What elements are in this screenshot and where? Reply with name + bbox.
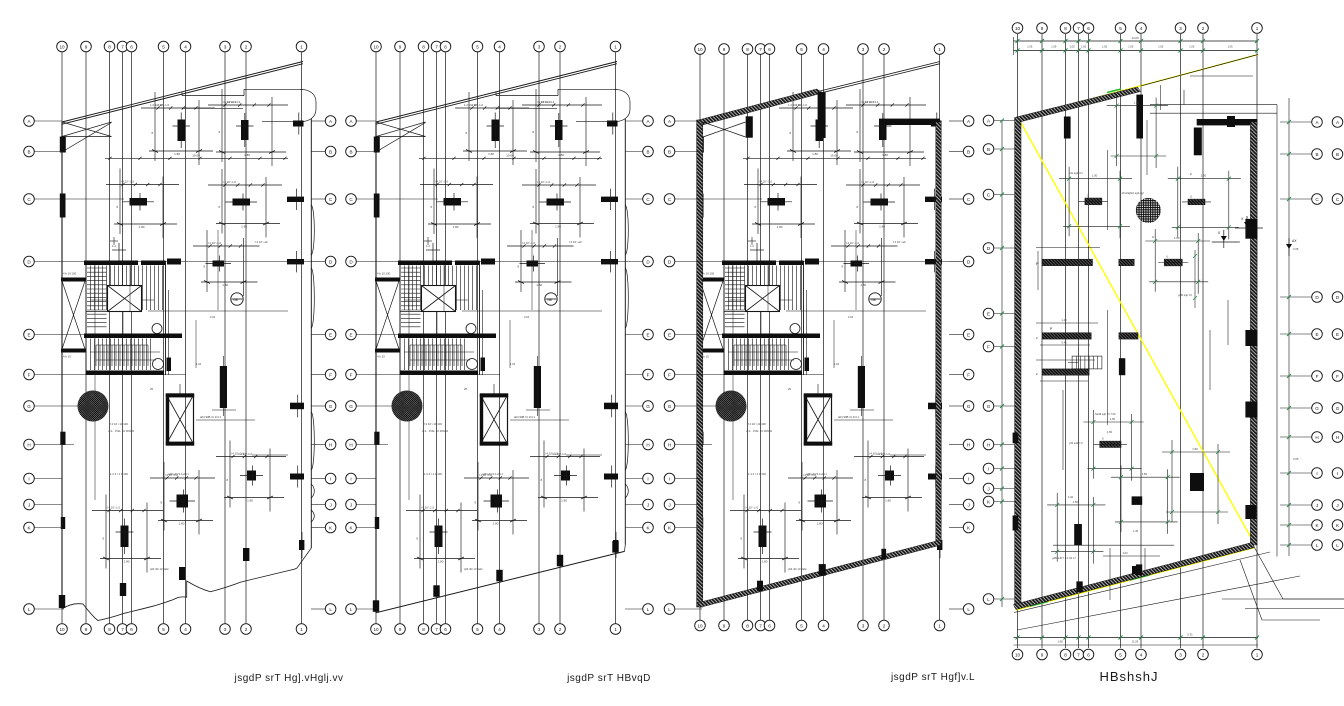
svg-text:I: I (330, 476, 331, 481)
row bubble D left (24, 256, 35, 267)
svg-text:10: 10 (697, 47, 703, 52)
svg-text:2.04: 2.04 (524, 315, 530, 319)
svg-text:l 4 10 \ 1.0: l 4 10 \ 1.0 (231, 452, 245, 456)
svg-text:GB: GB (871, 298, 876, 302)
svg-text:d.4- . P40- 10 00N04: d.4- . P40- 10 00N04 (108, 429, 134, 433)
row stub (34, 198, 124, 200)
row stub (1280, 504, 1312, 506)
svg-text:1.80: 1.80 (488, 152, 494, 156)
yellow roof line 2 (1020, 121, 1255, 545)
svg-text:10 sNgNA sgb sgl: 10 sNgNA sgb sgl (1121, 191, 1144, 195)
svg-text:8: 8 (1064, 26, 1067, 31)
svg-text:8: 8 (422, 627, 425, 632)
svg-text:25: 25 (464, 387, 468, 391)
grid4 pier (818, 92, 826, 138)
brace (62, 122, 112, 137)
grid line 5 (1120, 34, 1122, 648)
svg-text:G: G (349, 404, 353, 409)
grid bubble 7 bottom (755, 620, 766, 631)
panel 1 outline (59, 62, 316, 621)
row bubble H left (24, 439, 35, 450)
grid bubble 4 top (818, 44, 829, 55)
grid bubble 4 top (180, 41, 191, 52)
row stub (1280, 296, 1312, 298)
row bubble F left (24, 369, 35, 380)
svg-text:4: 4 (1140, 652, 1143, 657)
bottom diagonal wall (1014, 543, 1255, 610)
svg-text:l 4 10 \ 1.0: l 4 10 \ 1.0 (208, 241, 222, 245)
row stub (311, 405, 325, 407)
column module 6 (854, 441, 924, 512)
grid bubble 6 bottom (126, 624, 137, 635)
svg-text:1.4b: 1.4b (1205, 557, 1211, 561)
row bubble G right (643, 401, 654, 412)
grid line 1 (301, 52, 303, 624)
row stub (1280, 544, 1312, 546)
row stub (356, 261, 625, 263)
grid bubble 5 top (158, 41, 169, 52)
row bubble D right (643, 256, 654, 267)
row bubble I left (664, 473, 675, 484)
svg-text:l 4 10 \ 1.0: l 4 10 \ 1.0 (421, 506, 435, 510)
row bubble F left (346, 369, 357, 380)
svg-text:G: G (1336, 406, 1340, 411)
row bubble K right (963, 522, 974, 533)
grid bubble 10 top (371, 41, 382, 52)
svg-text:f 4 10 \ a0: f 4 10 \ a0 (255, 240, 268, 244)
row bubble I right (643, 473, 654, 484)
svg-text:GB: GB (233, 298, 238, 302)
svg-text:10: 10 (1015, 26, 1021, 31)
row bubble C left (664, 194, 675, 205)
svg-text:1.50: 1.50 (1092, 174, 1098, 178)
svg-text:E: E (987, 311, 990, 316)
grid line 10 (375, 52, 377, 624)
svg-text:4 b 10 100: 4 b 10 100 (377, 272, 391, 276)
svg-text:l 4 10 \ 1.0: l 4 10 \ 1.0 (435, 180, 449, 184)
row bubble F right 1 (1312, 371, 1323, 382)
row stub (34, 151, 62, 153)
svg-text:H: H (1315, 435, 1318, 440)
column module 5 (507, 230, 574, 296)
svg-text:4: 4 (184, 44, 187, 49)
row bubble H left (983, 439, 994, 450)
dimension line upper (743, 157, 926, 159)
column module 2 (208, 89, 288, 166)
dim ticks (746, 157, 749, 160)
grid bubble 3 bottom (1175, 649, 1186, 660)
svg-text:E: E (1315, 332, 1318, 337)
row stub (356, 527, 376, 529)
row stub (1280, 153, 1312, 155)
beam module H (1162, 440, 1230, 524)
grid line 2 (883, 52, 885, 624)
svg-text:a04 90B \U 2/4 1: a04 90B \U 2/4 1 (514, 415, 535, 419)
svg-text:1.2 4 \ 1.0 100: 1.2 4 \ 1.0 100 (110, 472, 128, 476)
svg-text:3: 3 (862, 623, 865, 628)
AX marker (1288, 238, 1290, 256)
svg-text:4: 4 (498, 627, 501, 632)
grid bubble 7 top (431, 41, 442, 52)
svg-text:E: E (967, 332, 970, 337)
svg-text:g4f0 egb f.C: g4f0 egb f.C (1178, 293, 1192, 297)
row stub (994, 148, 1015, 150)
svg-text:l 4 10 \ 1.0: l 4 10 \ 1.0 (470, 103, 484, 107)
grid bubble 4 bottom (494, 624, 505, 635)
row bubble H right (325, 439, 336, 450)
row bubble K left (346, 522, 357, 533)
row stub (356, 608, 378, 610)
row stub (34, 405, 78, 407)
row stub (1280, 198, 1312, 200)
column module 4 (846, 169, 920, 238)
svg-text:2: 2 (559, 627, 562, 632)
grid bubble 5 bottom (796, 620, 807, 631)
grid bubble 10 bottom (695, 620, 706, 631)
elevator shaft (788, 384, 832, 446)
row stub (994, 346, 1015, 348)
svg-text:1.50: 1.50 (1134, 101, 1140, 105)
grid line 3 (538, 52, 540, 624)
row bubble G right (325, 401, 336, 412)
grid line 3 (862, 52, 864, 624)
dim marks (510, 419, 569, 421)
grid bubble 6 top (126, 41, 137, 52)
svg-text:F: F (350, 372, 353, 377)
svg-text:5: 5 (476, 44, 479, 49)
svg-text:1.03: 1.03 (1122, 551, 1128, 555)
top dimension lines (1014, 40, 1259, 42)
row stub (34, 374, 186, 376)
row stub (356, 405, 392, 407)
row stub (949, 261, 963, 263)
row bubble C right 2 (1332, 194, 1343, 205)
svg-text:9: 9 (85, 627, 88, 632)
svg-text:1.80: 1.80 (885, 499, 891, 503)
row stub (356, 478, 376, 480)
row stub (994, 405, 1015, 407)
svg-text:6: 6 (130, 627, 133, 632)
row stub (356, 504, 376, 506)
svg-text:E: E (1336, 332, 1339, 337)
panel 2 outline (373, 62, 630, 613)
svg-text:l 4 10 \ 1.0: l 4 10 \ 1.0 (479, 473, 493, 477)
svg-text:5: 5 (162, 44, 165, 49)
column module 5 (193, 230, 260, 296)
svg-text:25: 25 (788, 387, 792, 391)
row stub (949, 527, 963, 529)
svg-text:GB: GB (547, 298, 552, 302)
grid line 9 (723, 52, 725, 624)
grid bubble 8 bottom (418, 624, 429, 635)
svg-text:3: 3 (862, 47, 865, 52)
column module 3 (744, 169, 817, 239)
svg-text:7: 7 (759, 623, 762, 628)
row stub (356, 374, 500, 376)
column module 7 (150, 462, 215, 535)
svg-text:25: 25 (150, 387, 154, 391)
svg-text:l 4 10 \ 1.0: l 4 10 \ 1.0 (803, 473, 817, 477)
hatched column (392, 391, 423, 422)
row stub (1280, 333, 1312, 335)
svg-text:H: H (668, 442, 671, 447)
row bubble F left (664, 369, 675, 380)
svg-text:v4o eg0 l b l: v4o eg0 l b l (1069, 171, 1083, 175)
row bubble L right (325, 604, 336, 615)
row stub (34, 504, 62, 506)
row stub (311, 444, 325, 446)
svg-text:2: 2 (883, 47, 886, 52)
row bubble B right (325, 146, 336, 157)
svg-text:8: 8 (1064, 652, 1067, 657)
svg-text:1.80: 1.80 (222, 283, 228, 287)
svg-text:5: 5 (800, 623, 803, 628)
row stub (625, 198, 643, 200)
svg-text:5: 5 (800, 47, 803, 52)
row stub (994, 247, 1015, 249)
row bubble L left (983, 594, 994, 605)
grid line 8 (109, 52, 111, 624)
row stub (625, 608, 643, 610)
column module 3 (106, 169, 179, 239)
beam module G (1107, 94, 1169, 168)
row stub (625, 261, 643, 263)
svg-text:G: G (668, 404, 672, 409)
top diagonal wall (1015, 87, 1141, 123)
svg-text:6: 6 (768, 623, 771, 628)
grid bubble 7 top (755, 44, 766, 55)
row bubble F right (325, 369, 336, 380)
row bubble B left (346, 146, 357, 157)
row stub (949, 151, 963, 153)
grid bubble 2 top (879, 44, 890, 55)
roof drain circle (1136, 198, 1161, 223)
svg-text:1.05: 1.05 (1189, 45, 1195, 49)
thin roof diagonal (820, 62, 940, 92)
svg-text:p04 r4b 10 0abc: p04 r4b 10 0abc (788, 567, 807, 571)
row stub (356, 151, 376, 153)
row bubble J right (643, 499, 654, 510)
grid bubble 10 top (695, 44, 706, 55)
row bubble L right 2 (1332, 540, 1343, 551)
row bubble G left (983, 401, 994, 412)
svg-text:1.98: 1.98 (1057, 640, 1063, 644)
row bubble G left (24, 401, 35, 412)
row stub (625, 120, 643, 122)
svg-text:H: H (27, 442, 30, 447)
grid bubble 5 bottom (472, 624, 483, 635)
svg-text:f 4 10 \ a0: f 4 10 \ a0 (569, 240, 582, 244)
row bubble D right 2 (1332, 292, 1343, 303)
svg-text:1.80: 1.80 (179, 522, 185, 526)
svg-text:1: 1 (614, 627, 617, 632)
row bubble C left (983, 189, 994, 200)
row stub (311, 151, 325, 153)
beam module E (1111, 465, 1180, 534)
svg-text:J: J (329, 502, 331, 507)
grid line 8 (747, 52, 749, 624)
svg-text:1.05: 1.05 (1081, 45, 1087, 49)
row bubble D left (664, 256, 675, 267)
row stub (949, 608, 963, 610)
elevator shaft (464, 384, 508, 446)
svg-text:J: J (967, 502, 969, 507)
svg-text:J: J (350, 502, 352, 507)
svg-text:2: 2 (1202, 26, 1205, 31)
svg-text:l 4 10 \ 1.0: l 4 10 \ 1.0 (537, 180, 551, 184)
svg-text:a04 90B \U 2/4 1: a04 90B \U 2/4 1 (838, 415, 859, 419)
row bubble A left (346, 116, 357, 127)
row bubble H right 1 (1312, 432, 1323, 443)
stair core (61, 243, 182, 375)
svg-text:10: 10 (59, 627, 65, 632)
dim ticks (422, 157, 425, 160)
right wall (1250, 122, 1257, 545)
svg-text:l 4 10 \ 1.0: l 4 10 \ 1.0 (121, 180, 135, 184)
grid bubble 1 bottom (1252, 649, 1263, 660)
svg-text:6: 6 (1087, 652, 1090, 657)
svg-text:4 b 10: 4 b 10 (377, 355, 385, 359)
row bubble A right 2 (1332, 117, 1343, 128)
svg-text:I: I (28, 476, 29, 481)
svg-text:J: J (28, 502, 30, 507)
grid bubble 10 top (57, 41, 68, 52)
svg-text:f 4 10 \ 10 100: f 4 10 \ 10 100 (110, 422, 128, 426)
left wall (1015, 118, 1021, 608)
grid line 4 (823, 52, 825, 624)
svg-text:8: 8 (422, 44, 425, 49)
row bubble D left (983, 243, 994, 254)
row bubble B right 1 (1312, 149, 1323, 160)
corner cut (297, 548, 311, 568)
grid bubble 4 top (494, 41, 505, 52)
svg-text:I: I (988, 466, 989, 471)
svg-text:E: E (27, 332, 30, 337)
bottom diagonal wall (697, 541, 941, 608)
svg-text:l 4 10 \ 1.0: l 4 10 \ 1.0 (223, 180, 237, 184)
row bubble K right (325, 522, 336, 533)
svg-text:10: 10 (59, 44, 65, 49)
svg-text:5: 5 (476, 627, 479, 632)
thin offset outline (1150, 104, 1277, 106)
grid bubble 2 bottom (241, 624, 252, 635)
svg-text:l 4 10 \ 1.0: l 4 10 \ 1.0 (794, 103, 808, 107)
grid line 1 (939, 52, 941, 624)
wall piers (1064, 117, 1071, 139)
row bubble L right (963, 604, 974, 615)
row bubble J right 1 (1312, 500, 1323, 511)
svg-text:1.04: 1.04 (510, 362, 516, 366)
svg-text:1.05: 1.05 (1102, 45, 1108, 49)
panel 1 interior (62, 52, 302, 624)
svg-text:I: I (647, 476, 648, 481)
row bubble D right (963, 256, 974, 267)
svg-text:1.80: 1.80 (879, 225, 885, 229)
row bubble I left (346, 473, 357, 484)
dimension line upper (105, 157, 288, 159)
green ridge segments (1030, 602, 1048, 607)
row bubble F right 2 (1332, 371, 1343, 382)
row stub (949, 120, 963, 122)
svg-text:3: 3 (224, 44, 227, 49)
svg-text:9: 9 (1041, 26, 1044, 31)
north symbol (869, 293, 881, 305)
svg-text:B: B (349, 149, 352, 154)
grid line 2 (245, 52, 247, 624)
grid bubble 8 bottom (1060, 649, 1071, 660)
grid bubble 4 bottom (818, 620, 829, 631)
svg-text:9: 9 (399, 44, 402, 49)
grid bubble 1 top (610, 41, 621, 52)
grid bubble 5 bottom (1115, 649, 1126, 660)
grid bubble 3 top (1175, 23, 1186, 34)
beam module A (1059, 167, 1132, 239)
tall column bar (858, 366, 865, 408)
grid line 10 (1017, 34, 1019, 648)
row bubble F right (963, 369, 974, 380)
svg-text:B: B (967, 149, 970, 154)
row bubble I right 2 (1332, 468, 1343, 479)
row bubble H right (643, 439, 654, 450)
row bubble C left (346, 194, 357, 205)
svg-text:1.2: 1.2 (426, 244, 430, 248)
row stub (994, 468, 1015, 470)
thin black diagonal over yellow1 (1141, 55, 1259, 87)
svg-text:6: 6 (444, 627, 447, 632)
grid line 8 (1065, 34, 1067, 648)
grid bubble 10 bottom (57, 624, 68, 635)
row bubble D right 1 (1312, 292, 1323, 303)
svg-text:H: H (646, 442, 649, 447)
row stub (356, 334, 402, 336)
row bubble J left (983, 483, 994, 494)
svg-text:H: H (987, 442, 990, 447)
grid bubble 9 bottom (81, 624, 92, 635)
grid bubble 6 top (440, 41, 451, 52)
dimension line upper (419, 157, 602, 159)
svg-text:1.80: 1.80 (453, 225, 459, 229)
svg-text:1.05: 1.05 (1069, 45, 1075, 49)
row bubble K right (643, 522, 654, 533)
wavy bottom edge (63, 568, 297, 621)
row stub (311, 261, 325, 263)
svg-text:1.20: 1.20 (1068, 495, 1074, 499)
row stub (675, 120, 700, 122)
svg-text:8: 8 (746, 47, 749, 52)
svg-text:9: 9 (399, 627, 402, 632)
dim marks (834, 419, 893, 421)
grid line 4 (1140, 34, 1142, 648)
row bubble L left (346, 604, 357, 615)
svg-text:L: L (1336, 543, 1339, 548)
svg-text:l 4 10 \ 1.0: l 4 10 \ 1.0 (223, 100, 237, 104)
grid bubble 1 top (296, 41, 307, 52)
row bubble C right (643, 194, 654, 205)
grid bubble 7 bottom (431, 624, 442, 635)
row bubble I right (963, 473, 974, 484)
grid line 8 (423, 52, 425, 624)
roof diagonal (62, 62, 303, 123)
svg-text:I: I (1337, 471, 1338, 476)
grid line 9 (399, 52, 401, 624)
grid line 2 (1202, 34, 1204, 648)
svg-text:I: I (350, 476, 351, 481)
svg-text:7: 7 (1077, 652, 1080, 657)
left wall (697, 120, 703, 607)
svg-text:l 4 10 \ 1.0: l 4 10 \ 1.0 (165, 473, 179, 477)
svg-text:U: U (1102, 437, 1104, 441)
row bubble D right (325, 256, 336, 267)
